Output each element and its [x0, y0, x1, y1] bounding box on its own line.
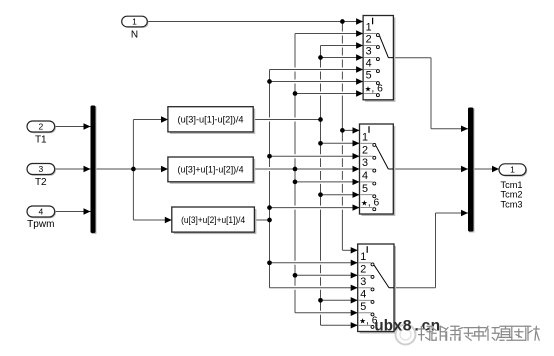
arrowheads into function blocks	[161, 116, 168, 122]
junction dots on net N	[340, 19, 345, 24]
svg-text:1: 1	[132, 17, 137, 27]
svg-text:Tpwm: Tpwm	[27, 219, 54, 230]
wire: b3 to S2 input 2	[273, 154, 360, 158]
svg-text:2: 2	[360, 264, 366, 276]
svg-text:3: 3	[360, 276, 366, 288]
svg-text:5: 5	[366, 70, 372, 82]
svg-text:N: N	[131, 30, 138, 41]
svg-text:Tcm1: Tcm1	[501, 180, 523, 190]
wire: N to switch S2 control	[345, 128, 359, 132]
svg-text:1: 1	[366, 22, 372, 34]
svg-text:T2: T2	[35, 177, 47, 188]
wire: switch S2 output to mux M2	[393, 168, 468, 170]
svg-text:2: 2	[366, 34, 372, 46]
multiport switch S1	[365, 18, 395, 102]
svg-text:Tcm3: Tcm3	[501, 199, 523, 209]
arrowhead into outport	[492, 166, 499, 172]
function block F3 (u[3]+u[2]+u[1])/4	[174, 209, 257, 234]
wire: net N vertical distribution line	[341, 22, 343, 251]
svg-text:1: 1	[360, 251, 366, 263]
wire: b2 to S1 input 1	[298, 32, 363, 36]
svg-text:4: 4	[38, 207, 43, 217]
wire: net b2 vertical distribution line	[294, 34, 296, 313]
svg-text:T1: T1	[35, 135, 47, 146]
wire: inport T2 to mux M1	[55, 168, 91, 170]
svg-text:1: 1	[510, 165, 515, 175]
svg-text:2: 2	[362, 144, 368, 156]
svg-text:4: 4	[362, 170, 368, 182]
wire: branch vertical from mux M1 output	[132, 120, 134, 221]
arrowheads into switch S2	[353, 127, 360, 133]
arrowheads into mux M1	[84, 123, 91, 129]
inport 1 (N)	[123, 17, 149, 28]
wire: inport T1 to mux M1	[55, 126, 91, 128]
watermark logo circle	[396, 325, 416, 345]
mux M2 (output combiner bar)	[469, 109, 475, 233]
svg-text:3: 3	[366, 46, 372, 58]
svg-text:3: 3	[362, 157, 368, 169]
wire: b1 to S2 input 5	[324, 193, 360, 197]
wire: inport N to switch S1 control	[150, 20, 363, 24]
svg-text:★, 6: ★, 6	[361, 198, 380, 209]
arrowheads into switch S3	[351, 247, 358, 253]
wire: b2 to S3 input 2	[298, 273, 358, 277]
svg-text:1: 1	[362, 132, 368, 144]
wire: b1 to S1 input 3	[324, 56, 364, 60]
svg-text:4: 4	[360, 289, 366, 301]
wire: block F1 output to b1 net	[256, 118, 320, 122]
wire: branch to block F1	[133, 119, 168, 121]
multiport switch S3	[360, 246, 396, 334]
arrowheads into switch S1	[356, 18, 363, 24]
svg-text:5: 5	[360, 301, 366, 313]
function block F1 (u[3]-u[1]-u[2])/4	[170, 109, 255, 134]
wire: net b3 vertical distribution line	[269, 70, 271, 288]
wire: b3 to S1 input 5	[273, 80, 364, 84]
wire: inport Tpwm to mux M1	[55, 211, 91, 213]
wire: mux M2 output to outport	[475, 168, 500, 170]
svg-text:(u[3]+u[1]-u[2])/4: (u[3]+u[1]-u[2])/4	[178, 165, 244, 175]
wire: mux M1 output to function blocks	[96, 168, 169, 170]
junction dots on net b3	[267, 79, 272, 84]
wire: b3 to S1 input 4	[273, 68, 364, 72]
wire: switch S1 output to mux M2	[393, 57, 431, 59]
svg-text:(u[3]+u[2]+u[1])/4: (u[3]+u[2]+u[1])/4	[181, 215, 245, 225]
mux M1 (input combiner bar)	[92, 107, 97, 235]
svg-text:(u[3]-u[1]-u[2])/4: (u[3]-u[1]-u[2])/4	[178, 115, 244, 125]
wire: switch S3 output to mux M2	[394, 287, 436, 289]
inport 3 (T2)	[28, 165, 56, 176]
wire: b2 to S2 input 4	[298, 180, 360, 184]
wire: b3 to S3 input 3	[273, 286, 358, 290]
svg-text:5: 5	[362, 183, 368, 195]
svg-text:★, 6: ★, 6	[365, 84, 384, 95]
wire: block F2 output to S2 input 3	[256, 167, 359, 171]
wire: branch to block F3	[133, 219, 171, 221]
function block F2 (u[3]+u[1]-u[2])/4	[170, 159, 255, 184]
wire: b1 to S1 input 2	[324, 44, 364, 48]
inport 4 (Tpwm)	[28, 207, 56, 218]
junction dot mux M1 output branch	[131, 167, 136, 172]
wire: block F3 output to b3 net	[257, 218, 269, 222]
wire: b3 to S3 input 1	[273, 261, 358, 265]
wire: b2 to S1 input 6	[298, 92, 363, 96]
junction dots on net b1	[318, 55, 323, 60]
wire: b2 to S3 input 5	[298, 311, 358, 315]
junction dots on net b2	[293, 91, 298, 96]
wire: net b1 vertical distribution line	[320, 46, 322, 326]
wire: b1 to S2 input 1	[324, 141, 360, 145]
wire: b1 to S3 input 4	[324, 298, 358, 302]
watermark text (chinese team name, drawn as stroke glyphs)	[419, 326, 540, 341]
inport 2 (T1)	[28, 122, 56, 133]
svg-text:Tcm2: Tcm2	[501, 190, 523, 200]
wire: b1 to S3 input 6	[324, 323, 358, 327]
svg-text:4: 4	[366, 58, 372, 70]
svg-text:3: 3	[38, 164, 43, 174]
multiport switch S2	[362, 126, 396, 216]
wire: b3 to S2 input 6	[273, 206, 360, 210]
wire: N to switch S3 control	[345, 248, 357, 252]
svg-text:2: 2	[38, 122, 43, 132]
arrowheads into mux M2	[461, 126, 468, 132]
outport 1 (Tcm1 Tcm2 Tcm3)	[500, 165, 527, 177]
